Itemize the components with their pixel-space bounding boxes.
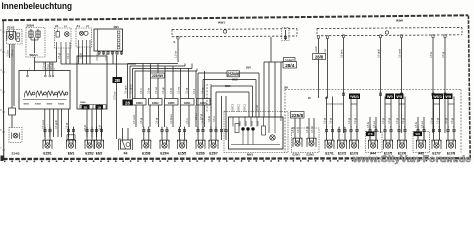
svg-text:0,5 rt: 0,5 rt: [186, 118, 189, 124]
panel connector 1B: [96, 105, 104, 110]
svg-text:0,5 sw: 0,5 sw: [105, 53, 108, 60]
switch unit base line: [23, 99, 67, 101]
wire A2 down 3: [86, 47, 88, 64]
connector sleeve 225/7: [284, 58, 296, 64]
svg-text:0,5 br: 0,5 br: [7, 50, 10, 56]
svg-text:0,5 gr: 0,5 gr: [382, 118, 385, 124]
wire E15/3 down b: [11, 44, 13, 108]
wire lamp A44 pin: [369, 127, 371, 141]
wire A1 down 3: [65, 48, 67, 64]
wire lamp E17/5 pin: [384, 127, 386, 141]
interior lamp unit N9 body: [229, 117, 284, 149]
wire to lamp row 2: [142, 105, 144, 127]
lamp E17/3: [350, 140, 359, 149]
svg-text:0,5 gr: 0,5 gr: [329, 118, 332, 124]
lamp in unit: [270, 135, 275, 140]
wire lamp E17/7 pin: [433, 127, 435, 141]
svg-text:0,5 sw: 0,5 sw: [195, 113, 198, 120]
svg-text:0,5 gr: 0,5 gr: [348, 118, 351, 124]
svg-text:W6/1: W6/1: [350, 94, 360, 99]
wire web left drop: [197, 73, 199, 131]
connector sleeve 225/8: [291, 112, 305, 119]
svg-text:0,5 gr: 0,5 gr: [445, 118, 448, 124]
lamp A44: [369, 140, 378, 149]
wire feeder x326: [326, 97, 328, 128]
svg-text:225/W9: 225/W9: [152, 74, 163, 78]
switch S15/3: [47, 91, 57, 98]
svg-text:0,5 sw: 0,5 sw: [256, 105, 259, 112]
wire lamp E15/6 pin: [197, 127, 199, 141]
connector X28B: [113, 77, 123, 83]
frame bottom border ticks: [4, 160, 470, 163]
wire lamp E15/5 pin: [184, 127, 186, 141]
wire trunk right 3: [401, 38, 403, 133]
wire lamp E15/4 pin: [166, 127, 168, 141]
wire unit internal: [244, 117, 246, 127]
svg-text:E6/1: E6/1: [68, 151, 75, 155]
resistor in unit a: [235, 124, 239, 133]
lamp A1 e1: [65, 32, 70, 37]
wire to switch unit 1: [44, 62, 46, 71]
svg-text:0,5 li: 0,5 li: [193, 88, 196, 94]
wire web left drop: [210, 86, 212, 131]
lamp A45: [417, 140, 426, 149]
connector W9 b: [395, 94, 404, 100]
svg-text:0,5 br: 0,5 br: [415, 122, 418, 128]
svg-text:0,5 gr: 0,5 gr: [396, 118, 399, 124]
svg-text:0,5 gr: 0,5 gr: [96, 54, 99, 60]
wire lamp E15/6 pin: [202, 127, 204, 141]
svg-text:0,5 gr: 0,5 gr: [354, 118, 357, 124]
wire bundle 7: [157, 64, 159, 99]
wire lamp E17/6 pin: [398, 127, 400, 141]
wire S6B/4 internal: [34, 38, 36, 54]
rear lamp group dashed box: [292, 128, 320, 153]
wire 28/1 down long: [116, 55, 118, 139]
lamp E20/3: [307, 138, 316, 147]
svg-text:E20/3: E20/3: [307, 153, 315, 157]
pin on W9/1 x445: [444, 35, 446, 38]
svg-text:A1: A1: [77, 24, 81, 28]
svg-text:28: 28: [125, 100, 130, 105]
panel connector 2B: [82, 105, 90, 110]
lamp E15/4: [160, 140, 169, 149]
frame left border: [2, 21, 5, 160]
wire 28/1 down short: [112, 55, 114, 64]
lamp unit A2 box: [76, 28, 92, 47]
wire stub into unit a: [221, 96, 223, 140]
svg-text:0,5 gr: 0,5 gr: [451, 118, 454, 124]
svg-text:W9: W9: [396, 94, 403, 99]
wire to lamp row 5: [164, 105, 166, 127]
fuse F4: [121, 140, 131, 149]
wire S6B/4 down: [34, 57, 36, 71]
28/1 pin column: [117, 31, 120, 49]
svg-text:E20/1: E20/1: [293, 153, 301, 157]
wire lamp E15/1 pin: [49, 127, 51, 141]
wire bundle 8: [164, 66, 166, 99]
wire to lamp row 10: [204, 105, 206, 127]
wire web right drop: [255, 80, 257, 118]
wire bundle 11: [188, 69, 190, 99]
connector X26/3: [133, 99, 147, 106]
svg-text:E15/5: E15/5: [178, 151, 187, 155]
svg-text:0,5 sw: 0,5 sw: [421, 121, 424, 128]
wire from W9/1 to unit: [270, 37, 272, 62]
svg-text:E15/4: E15/4: [160, 151, 169, 155]
lamp E6/1: [67, 140, 76, 149]
connector W9 a: [386, 94, 395, 100]
wire lamp A45 pin: [417, 127, 419, 141]
svg-text:0,5 gr: 0,5 gr: [436, 118, 439, 124]
instrument panel box: [77, 56, 107, 109]
terminal 2 S6B/4: [36, 29, 40, 37]
switch E14 dashed box: [9, 128, 22, 143]
harness web line 1: [198, 72, 259, 74]
svg-text:E15/3: E15/3: [7, 26, 15, 30]
wire trunk right 4: [432, 38, 434, 133]
connector W6/1: [349, 94, 360, 100]
connector sleeve 28/8: [313, 54, 326, 60]
panel connector hatch: [80, 104, 106, 106]
wire feeder A45 b: [423, 117, 425, 141]
wire bundle 4: [134, 71, 136, 99]
connector X26/4: [197, 99, 211, 106]
connector W8 a: [366, 132, 375, 137]
wire feeder A44 a: [369, 117, 371, 141]
wire lamp E15/2 pin: [86, 127, 88, 141]
28/1 internal wall: [97, 29, 99, 51]
wire bundle 3: [132, 69, 134, 99]
svg-text:E6/2: E6/2: [96, 151, 103, 155]
wire left down: [11, 115, 13, 128]
svg-text:30/8C3: 30/8C3: [232, 103, 235, 112]
lamp E20/1: [293, 138, 302, 147]
frame top border: [2, 15, 468, 20]
svg-text:X26/5: X26/5: [168, 102, 175, 105]
wire lamp E15/1 pin: [44, 127, 46, 141]
svg-text:28/4: 28/4: [285, 63, 295, 68]
wire E20/1 b: [299, 118, 301, 138]
svg-text:0,5 gr: 0,5 gr: [323, 118, 326, 124]
svg-text:2: 2: [47, 69, 48, 71]
pin on W9/1 x343: [342, 35, 344, 38]
svg-text:0,5 br: 0,5 br: [367, 122, 370, 128]
wire panel out 1: [86, 110, 88, 138]
wire riser 281: [280, 62, 282, 117]
svg-text:28/4: 28/4: [246, 67, 251, 70]
control unit 28/1 box: [94, 29, 123, 51]
svg-text:0,5 br: 0,5 br: [430, 52, 433, 58]
svg-text:0,5 gr: 0,5 gr: [430, 118, 433, 124]
svg-text:W9/6: W9/6: [396, 19, 403, 23]
wire A2 down 2: [82, 47, 84, 64]
pin on W9/1 x401: [400, 35, 402, 38]
wire feeder A45 a: [417, 117, 419, 141]
wire feeder x405: [404, 97, 406, 128]
wire switch unit out 6: [68, 109, 70, 137]
pin G on W9/1: [177, 37, 179, 40]
roof harness boundary left: [284, 90, 286, 153]
wire to switch unit 2: [49, 62, 51, 71]
roof harness boundary right: [460, 90, 462, 153]
svg-text:0,5 br/sw: 0,5 br/sw: [170, 114, 173, 124]
wire to lamp row 7: [180, 105, 182, 127]
lamp E15/3: [7, 32, 16, 41]
svg-text:2B: 2B: [114, 78, 120, 83]
connector W8 b: [414, 132, 423, 137]
connector 28/8 black: [123, 100, 133, 106]
wire feeder x351: [350, 97, 352, 128]
E15/3 side contacts: [17, 33, 20, 36]
connector sleeve 225/W9: [151, 73, 165, 78]
pin on W9/1 x433: [432, 35, 434, 38]
wire unit internal right: [263, 117, 265, 126]
svg-text:36f: 36f: [284, 85, 288, 89]
svg-text:30/8C1: 30/8C1: [244, 103, 247, 112]
switch contacts in unit: [241, 127, 244, 130]
svg-text:W6/1: W6/1: [433, 94, 443, 99]
wire lamp E15/5 pin: [179, 127, 181, 141]
switch S6B/4 box: [26, 28, 45, 58]
svg-text:0,5 sw: 0,5 sw: [373, 121, 376, 128]
wire unit internal deep: [242, 131, 244, 145]
svg-text:0,5 rt: 0,5 rt: [213, 116, 216, 122]
harness link mid: [61, 63, 136, 65]
svg-text:S15/1: S15/1: [24, 104, 30, 106]
lamp E17/8: [447, 140, 456, 149]
wire riser 275: [274, 62, 276, 117]
resistor in unit b: [262, 126, 266, 135]
wire switch unit out 5: [61, 109, 63, 137]
connector box on rail X30: [282, 28, 289, 41]
svg-text:W9/1: W9/1: [225, 85, 231, 88]
unit internal bus: [231, 144, 280, 146]
wire panel out 3: [96, 110, 98, 138]
svg-text:0,5 sw/rt: 0,5 sw/rt: [398, 48, 401, 58]
wire A1 down 1: [56, 48, 58, 62]
wire lamp A44 pin: [375, 127, 377, 141]
wire lamp E15/4 pin: [161, 127, 163, 141]
lamp E6/2: [95, 140, 104, 149]
switch unit top pins: [27, 69, 56, 77]
lamp E15/1: [43, 140, 52, 149]
lamp E17/7: [432, 140, 441, 149]
interior lamp unit N9 dashed outline: [224, 112, 288, 153]
lamp E15/7: [209, 140, 218, 149]
wire feeder A44 b: [375, 117, 377, 141]
svg-text:25/W8: 25/W8: [227, 72, 240, 77]
svg-text:225/8: 225/8: [291, 113, 303, 118]
28/1 bottom connector row: [98, 51, 123, 55]
pin on W9/1 x380: [379, 35, 381, 38]
wire bundle 5: [142, 64, 144, 99]
svg-text:0,5 br: 0,5 br: [292, 127, 295, 133]
svg-text:www.CityVan-Forum.de: www.CityVan-Forum.de: [352, 154, 471, 164]
connector rail W9/6 right box: [317, 28, 462, 29]
wire bundle 10: [180, 69, 182, 99]
lamp E17/6: [398, 140, 407, 149]
wire lamp E6/1 pin: [68, 127, 70, 141]
wire to lamp row 1: [135, 105, 137, 127]
wire feeder x454: [453, 97, 455, 128]
wire feeder x448: [447, 97, 449, 128]
wire web right drop: [252, 86, 254, 117]
wire feeder x357: [356, 97, 358, 128]
svg-text:0,5 gr: 0,5 gr: [200, 114, 203, 120]
wire feeder x391: [390, 97, 392, 128]
wire bundle 6: [150, 64, 152, 99]
terminal A1: [56, 32, 59, 38]
wire lamp E17/3 pin: [356, 127, 358, 141]
lamp E15/5: [178, 140, 187, 149]
svg-text:0,5 gr/bl: 0,5 gr/bl: [55, 120, 58, 129]
wire riser 269: [268, 62, 270, 117]
frame bottom border: [3, 157, 470, 160]
wire bundle 2: [129, 66, 131, 99]
svg-text:S15/3: S15/3: [47, 104, 53, 106]
switch S15/1: [25, 91, 35, 98]
wire unit internal: [250, 117, 252, 127]
svg-text:3: 3: [29, 69, 30, 71]
svg-text:W9/2: W9/2: [232, 79, 238, 82]
wire trunk right 2: [380, 38, 382, 133]
wire lamp E17/5 pin: [390, 127, 392, 141]
wire panel out 4: [101, 110, 103, 138]
svg-text:W9/1: W9/1: [218, 21, 225, 25]
wire web right drop: [258, 73, 260, 117]
connector X26/2: [149, 99, 163, 106]
wire E20/3 a: [308, 118, 310, 138]
svg-text:28/1: 28/1: [114, 25, 120, 29]
wire A1 down 2: [60, 48, 62, 64]
svg-text:0,5 gr: 0,5 gr: [156, 118, 159, 124]
wire bundle 12: [195, 71, 197, 99]
svg-text:0,5 gr: 0,5 gr: [402, 118, 405, 124]
pin on W9/1 x327: [326, 36, 328, 39]
frame right border: [468, 16, 470, 159]
svg-text:G: G: [174, 41, 176, 44]
svg-text:E17/2: E17/2: [338, 151, 347, 155]
A1 pins: [57, 42, 71, 48]
svg-text:X26/2: X26/2: [152, 102, 159, 105]
svg-text:E14/3: E14/3: [12, 151, 20, 155]
reading lamp A44 dashed box: [366, 132, 383, 153]
wire switch unit out 4: [57, 109, 59, 137]
wire lamp E17/2 pin: [338, 127, 340, 141]
svg-text:0,5 gr: 0,5 gr: [442, 52, 445, 58]
connector X26/5: [165, 99, 179, 106]
wire E20/3 b: [313, 118, 315, 138]
svg-text:N9/1: N9/1: [247, 153, 254, 157]
wire lamp E17/1 pin: [332, 127, 334, 141]
svg-text:0,5 gn: 0,5 gn: [306, 126, 309, 133]
lamp E15/2: [85, 140, 94, 149]
svg-text:0,5 br/rt: 0,5 br/rt: [340, 49, 343, 58]
svg-text:E17/1: E17/1: [325, 151, 334, 155]
wire E15/3 down a: [9, 44, 11, 58]
svg-text:0,5 rt: 0,5 rt: [140, 88, 143, 94]
pin on W9/1 x318: [317, 36, 319, 39]
wire switch unit out 1: [44, 109, 46, 137]
harness web line 4: [216, 91, 249, 93]
wire stub into unit b: [225, 96, 227, 140]
switch S15/4: [58, 91, 68, 98]
wire lamp E15/7 pin: [215, 127, 217, 141]
connector rail W9/1 left box: [172, 28, 297, 31]
switch S15/2: [36, 91, 46, 98]
harness junction fan: [128, 63, 179, 65]
svg-text:0,5 gr: 0,5 gr: [185, 88, 188, 94]
wire lamp E17/1 pin: [326, 127, 328, 141]
svg-text:X26/4: X26/4: [200, 102, 207, 105]
wire lamp E15/8 pin: [143, 127, 145, 141]
svg-text:0,5 sw/rt: 0,5 sw/rt: [133, 114, 136, 124]
lamp E17/1: [325, 140, 334, 149]
wire bundle 13: [204, 71, 206, 99]
svg-text:0,75 sw: 0,75 sw: [114, 91, 117, 100]
svg-text:0,5 gr/rt: 0,5 gr/rt: [124, 85, 127, 94]
harness link right lamps c: [385, 103, 391, 105]
wire to lamp row 8: [188, 105, 190, 127]
wire lamp A45 pin: [423, 127, 425, 141]
wire trunk right 5: [444, 38, 446, 133]
connector W6/2: [432, 94, 443, 100]
lamp E17/5: [384, 140, 393, 149]
lamp A2 pair: [79, 31, 83, 35]
wire lamp E17/7 pin: [439, 127, 441, 141]
wire lamp E15/7 pin: [210, 127, 212, 141]
roof harness boundary top: [285, 89, 461, 91]
svg-text:X26/3: X26/3: [136, 102, 143, 105]
wire to switch unit 3: [52, 62, 54, 71]
svg-text:0,5 bl: 0,5 bl: [170, 88, 173, 94]
lamp E15/8: [142, 140, 151, 149]
wire lamp E17/8 pin: [447, 127, 449, 141]
wire panel out 2: [91, 110, 93, 138]
svg-text:E15/2: E15/2: [85, 151, 94, 155]
svg-text:30/8C2: 30/8C2: [238, 103, 241, 112]
wire lamp E17/2 pin: [344, 127, 346, 141]
wire A1 down 4: [69, 48, 71, 64]
svg-text:E15/6: E15/6: [196, 151, 205, 155]
A2 pins: [79, 40, 91, 47]
wire lamp E6/2 pin: [96, 127, 98, 141]
wire E20/1 a: [294, 118, 296, 138]
svg-text:Innenbeleuchtung: Innenbeleuchtung: [2, 0, 73, 11]
lamp E15/6: [196, 140, 205, 149]
wire bundle 9: [172, 66, 174, 99]
connector X26/1: [181, 99, 195, 106]
svg-text:A1: A1: [55, 24, 59, 28]
svg-text:0,5 br: 0,5 br: [147, 88, 150, 94]
svg-text:S15/4: S15/4: [58, 103, 64, 106]
lamp E17/2: [338, 140, 347, 149]
svg-text:0,5 gr: 0,5 gr: [140, 118, 143, 124]
wire E15/3 down c: [13, 44, 15, 106]
svg-text:0,5 gr: 0,5 gr: [388, 118, 391, 124]
left border grid ticks: [0, 30, 5, 150]
svg-text:0,5 gr/bl: 0,5 gr/bl: [377, 49, 380, 58]
wire to lamp row 3: [149, 105, 151, 127]
svg-text:W9: W9: [445, 94, 452, 99]
svg-text:0,5 ws: 0,5 ws: [177, 86, 180, 94]
wire F4 a: [122, 128, 124, 140]
wire 327 down: [327, 39, 329, 98]
wire lamp E15/2 pin: [91, 127, 93, 141]
wire riser 264: [263, 62, 265, 117]
harness web line 2: [203, 79, 256, 81]
